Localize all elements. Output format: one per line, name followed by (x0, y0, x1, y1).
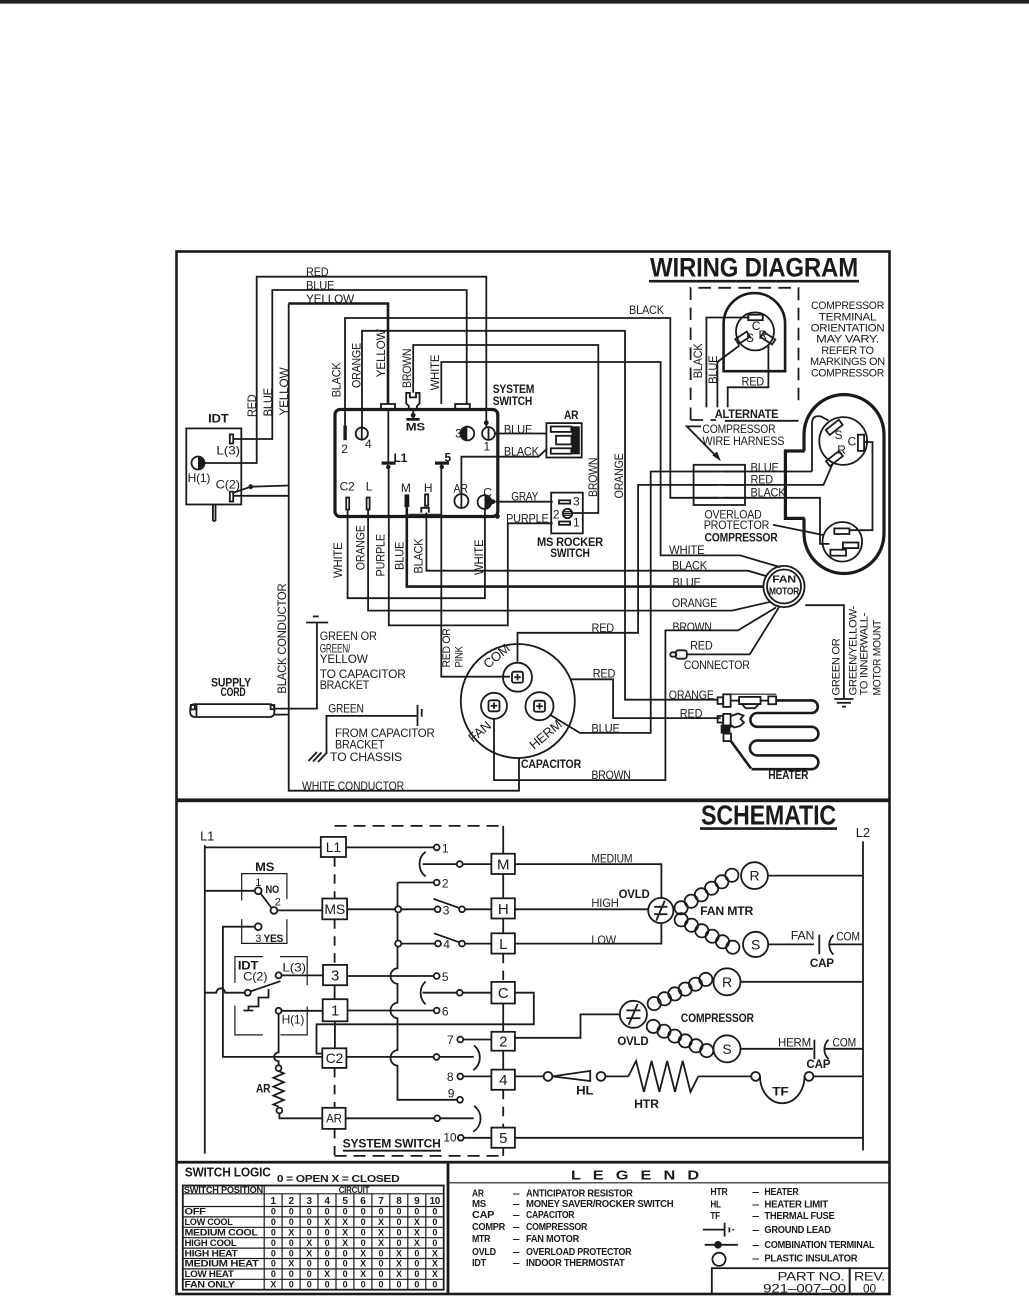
terminal 2 (bar) (343, 425, 346, 440)
compressor pocket notch (785, 451, 804, 518)
heater terminal dark blocks (721, 725, 731, 734)
svg-text:HTR: HTR (710, 1186, 728, 1198)
svg-text:0: 0 (414, 1269, 419, 1279)
svg-text:S: S (751, 936, 760, 952)
svg-text:COM: COM (833, 1035, 857, 1049)
junction dot at box corner (495, 514, 500, 519)
contact 8 (457, 1074, 463, 1080)
blade row3 (434, 899, 459, 908)
svg-text:5: 5 (499, 1130, 507, 1147)
svg-text:YELLOW: YELLOW (374, 329, 388, 378)
box 2 (switch column) (491, 1032, 515, 1051)
blade arc row1 (420, 852, 426, 877)
leader COMPRESSOR WIRE HARNESS arrow (687, 426, 719, 458)
wire BLUE harness to S (694, 416, 829, 471)
svg-text:S: S (835, 428, 843, 442)
svg-text:BRACKET: BRACKET (320, 678, 370, 692)
wire PURPLE rocker 1 to L1 terminal (389, 517, 553, 626)
svg-text:C: C (483, 486, 492, 500)
wire 1box to C2box (334, 1021, 336, 1048)
movable AR row (346, 1117, 435, 1119)
blade arc 9/10 (473, 1106, 480, 1132)
wire contact2 to bus (398, 882, 434, 884)
svg-text:MEDIUM: MEDIUM (591, 851, 632, 865)
chassis ground hatch (309, 752, 327, 762)
svg-text:10: 10 (429, 1196, 440, 1207)
svg-text:COMPRESSOR: COMPRESSOR (811, 367, 884, 379)
wire BLACK fan (426, 513, 766, 577)
anticipator resistor AR block (546, 423, 581, 457)
svg-text:RED: RED (690, 638, 713, 652)
svg-text:HTR: HTR (634, 1097, 659, 1111)
svg-text:0: 0 (396, 1280, 401, 1290)
svg-text:0: 0 (361, 1238, 366, 1248)
svg-text:0: 0 (289, 1207, 294, 1217)
svg-text:TERMINAL: TERMINAL (819, 311, 877, 323)
svg-text:0: 0 (414, 1280, 419, 1290)
svg-text:BLACK: BLACK (504, 445, 539, 459)
L1 bus (204, 845, 206, 1153)
terminal L1 plate (387, 410, 389, 463)
svg-text:FAN: FAN (791, 929, 814, 943)
wire contact7 to 2box (464, 1039, 492, 1041)
wire BLUE (IDT L3 to AR terminal lug) (233, 290, 467, 439)
compressor S terminal circle (714, 1035, 741, 1062)
svg-text:L1: L1 (394, 451, 408, 465)
contact 6 (434, 1008, 440, 1014)
leader overload protector (773, 525, 823, 535)
wire IDT common to L1 bus with hop (205, 988, 245, 992)
svg-text:IDT: IDT (208, 411, 229, 425)
junction dot above terminal 1 (484, 420, 489, 425)
rocker terminal 1 (559, 522, 570, 525)
svg-text:X: X (432, 1248, 438, 1258)
IDT contact H1 (276, 1008, 282, 1014)
wire RED connector to fan (687, 607, 779, 654)
svg-text:–: – (752, 1210, 760, 1222)
alternate compressor dome (724, 293, 786, 371)
svg-text:2: 2 (275, 897, 281, 909)
MS contact 3 YES (255, 923, 262, 930)
legend ground lead symbol (703, 1229, 725, 1231)
svg-text:–: – (752, 1186, 760, 1198)
svg-text:–: – (513, 1221, 521, 1233)
wire RED alt (728, 345, 769, 407)
contact 3 (435, 906, 441, 912)
fan S terminal circle (743, 932, 768, 957)
svg-text:1: 1 (255, 877, 261, 889)
resistor AR zigzag (273, 1071, 283, 1107)
svg-text:COMPRESSOR: COMPRESSOR (526, 1221, 588, 1233)
svg-text:HIGH HEAT: HIGH HEAT (185, 1248, 239, 1258)
junction dot at C (490, 499, 495, 504)
svg-text:H(1): H(1) (188, 471, 211, 485)
wire cord to black conductor riser (274, 714, 288, 716)
svg-text:1: 1 (271, 1196, 277, 1207)
svg-text:0: 0 (432, 1228, 437, 1238)
svg-text:0: 0 (289, 1248, 294, 1258)
svg-text:X: X (324, 1269, 330, 1279)
svg-text:0: 0 (414, 1259, 419, 1269)
wire HL to HTR (605, 1075, 628, 1077)
thermal fuse TF (751, 1072, 760, 1081)
system switch box (335, 410, 498, 517)
svg-text:PLASTIC INSULATOR: PLASTIC INSULATOR (764, 1253, 858, 1265)
svg-text:00: 00 (863, 1282, 876, 1296)
svg-text:2: 2 (288, 1196, 294, 1207)
svg-text:–: – (752, 1253, 760, 1265)
wire LOW row (515, 923, 662, 943)
wire fan S to FAN cap (768, 943, 814, 945)
svg-text:0: 0 (379, 1248, 384, 1258)
svg-text:L1: L1 (200, 828, 214, 843)
svg-text:CAP: CAP (472, 1209, 494, 1221)
svg-text:0: 0 (414, 1207, 419, 1217)
wire TF to L2 (813, 1075, 863, 1077)
terminal AR (circle) (454, 494, 468, 508)
svg-text:C2: C2 (340, 480, 355, 494)
svg-text:H: H (424, 481, 432, 495)
svg-text:LOW: LOW (591, 933, 616, 947)
red connector symbol (676, 650, 687, 658)
svg-text:MEDIUM COOL: MEDIUM COOL (185, 1228, 259, 1238)
terminal R (826, 451, 843, 466)
terminal H (bar with jog) (425, 494, 428, 505)
wire BLACK (terminal 2 to compressor harness) (345, 318, 694, 498)
wire 1box to contact6 (348, 1010, 434, 1012)
svg-text:BROWN: BROWN (400, 349, 414, 388)
svg-text:C(2): C(2) (243, 970, 267, 984)
capacitor terminal COM (503, 663, 532, 692)
svg-text:SWITCH POSITION: SWITCH POSITION (184, 1185, 263, 1196)
svg-text:X: X (342, 1228, 348, 1238)
svg-text:LOW HEAT: LOW HEAT (185, 1269, 235, 1279)
winding coil fan R (675, 901, 688, 914)
svg-text:MTR: MTR (472, 1233, 491, 1245)
movable C2 row (346, 1056, 433, 1058)
svg-text:SCHEMATIC: SCHEMATIC (701, 800, 836, 831)
svg-text:GREEN: GREEN (328, 701, 364, 715)
svg-text:0: 0 (307, 1269, 312, 1279)
svg-text:WHITE: WHITE (472, 539, 486, 575)
svg-text:0: 0 (271, 1228, 276, 1238)
terminal C (half-filled circle) (478, 495, 492, 509)
alt terminal C (748, 315, 763, 321)
svg-text:X: X (360, 1259, 366, 1269)
svg-text:YELLOW: YELLOW (320, 652, 369, 666)
svg-text:WHITE: WHITE (331, 542, 345, 578)
svg-text:X: X (378, 1238, 384, 1248)
svg-text:3: 3 (573, 494, 580, 508)
movable C row (423, 992, 457, 994)
svg-text:AR: AR (564, 408, 579, 422)
svg-text:GREEN OR: GREEN OR (831, 638, 843, 695)
svg-text:0: 0 (343, 1259, 348, 1269)
svg-text:L(3): L(3) (282, 961, 306, 975)
wire MS switch feed (205, 890, 255, 892)
svg-text:TO INNERWALL-: TO INNERWALL- (859, 612, 871, 695)
alt terminal S (735, 332, 750, 344)
svg-text:HL: HL (710, 1199, 721, 1211)
wire BLACK alt (706, 318, 749, 408)
wire GREEN fan motor ground (805, 605, 844, 699)
svg-text:MS: MS (324, 901, 345, 917)
svg-text:0: 0 (325, 1248, 330, 1258)
svg-text:R: R (837, 443, 846, 457)
thermal fuse assembly (731, 693, 777, 695)
svg-text:COMPRESSOR: COMPRESSOR (681, 1011, 754, 1025)
svg-text:X: X (288, 1228, 294, 1238)
svg-text:S: S (722, 1041, 731, 1057)
svg-text:PURPLE: PURPLE (374, 534, 388, 577)
svg-text:COMBINATION TERMINAL: COMBINATION TERMINAL (764, 1239, 875, 1251)
wire 2box to compressor OVLD (515, 1014, 621, 1037)
wire fan R to L2 (768, 875, 863, 877)
svg-text:RED: RED (593, 666, 616, 680)
svg-text:GREEN/YELLOW-: GREEN/YELLOW- (847, 605, 859, 695)
svg-text:HIGH COOL: HIGH COOL (185, 1238, 238, 1248)
terminal L (bar) (367, 498, 370, 510)
svg-text:L1: L1 (326, 839, 342, 855)
resistor HTR zigzag (628, 1061, 698, 1092)
wire BLACK CONDUCTOR riser (289, 304, 519, 791)
compressor shell outline (804, 395, 884, 574)
svg-text:ORANGE: ORANGE (672, 596, 717, 610)
svg-text:5: 5 (442, 970, 449, 984)
svg-text:0: 0 (432, 1217, 437, 1227)
blade row4 (434, 933, 459, 942)
svg-text:0: 0 (325, 1259, 330, 1269)
svg-text:–: – (513, 1233, 521, 1245)
wire YELLOW (IDT C2 riser to terminal lug) (289, 304, 389, 405)
contact 4 (435, 941, 441, 947)
svg-text:C(2): C(2) (216, 478, 240, 492)
svg-text:0: 0 (379, 1259, 384, 1269)
svg-text:0: 0 (432, 1238, 437, 1248)
contact 7 (457, 1037, 463, 1043)
svg-text:9: 9 (414, 1196, 420, 1207)
winding coil compressor R (648, 997, 661, 1010)
svg-text:OVLD: OVLD (619, 887, 650, 901)
svg-text:921–007–00: 921–007–00 (763, 1282, 847, 1296)
svg-text:CAP: CAP (806, 1057, 830, 1071)
svg-text:MOTOR MOUNT: MOTOR MOUNT (872, 619, 884, 695)
svg-text:BLUE: BLUE (591, 721, 619, 735)
svg-text:COM: COM (836, 929, 860, 943)
svg-text:RED: RED (680, 707, 703, 721)
svg-text:10: 10 (443, 1131, 456, 1145)
junction circle row4 (395, 941, 401, 947)
terminal S (826, 420, 843, 435)
terminal 4 (circle) (356, 428, 368, 440)
wire BROWN fan from capacitor FAN (494, 607, 776, 780)
svg-text:5: 5 (342, 1196, 348, 1207)
svg-text:0: 0 (325, 1238, 330, 1248)
svg-text:X: X (378, 1228, 384, 1238)
overload protector circle (823, 522, 863, 562)
svg-text:FAN: FAN (772, 575, 795, 586)
svg-text:3: 3 (331, 967, 339, 984)
svg-text:0: 0 (307, 1259, 312, 1269)
svg-text:OFF: OFF (185, 1207, 207, 1217)
svg-text:TF: TF (772, 1085, 788, 1099)
svg-text:CORD: CORD (221, 685, 246, 699)
svg-text:0: 0 (325, 1228, 330, 1238)
IDT bimetal step (244, 989, 269, 1011)
svg-text:X: X (396, 1248, 402, 1258)
wire compressor R to L2 (741, 981, 864, 983)
IDT sensing stub (213, 505, 216, 522)
svg-text:6: 6 (360, 1196, 366, 1207)
svg-text:X: X (396, 1259, 402, 1269)
svg-text:ORANGE: ORANGE (350, 343, 364, 388)
wire GREEN supply to capacitor-bracket ground (274, 623, 317, 708)
svg-text:0: 0 (396, 1217, 401, 1227)
IDT blade (251, 981, 281, 991)
svg-text:X: X (414, 1217, 420, 1227)
svg-text:0: 0 (289, 1217, 294, 1227)
divider wiring/schematic (176, 798, 890, 802)
svg-text:X: X (360, 1248, 366, 1258)
svg-text:X: X (432, 1269, 438, 1279)
MS plate (406, 418, 419, 421)
svg-text:8: 8 (447, 1070, 454, 1084)
svg-text:2: 2 (341, 442, 348, 456)
blade arc C row (421, 982, 426, 1005)
wire BROWN (MS terminal to rocker switch 2) (413, 345, 598, 513)
svg-text:SYSTEM SWITCH: SYSTEM SWITCH (343, 1137, 441, 1151)
wire WHITE (terminal 5 to fan motor) (441, 362, 780, 567)
svg-text:RED: RED (245, 394, 259, 417)
svg-text:HEATER: HEATER (768, 768, 808, 782)
terminal lug yellow on box top (381, 404, 395, 410)
svg-text:S: S (746, 331, 754, 345)
ground symbol motor mount (834, 698, 853, 700)
svg-text:L2: L2 (856, 825, 870, 840)
svg-text:0: 0 (361, 1217, 366, 1227)
box 5 (switch column) (491, 1128, 515, 1148)
svg-text:RED OR: RED OR (441, 628, 453, 667)
svg-text:H(1): H(1) (282, 1013, 305, 1027)
svg-text:C: C (848, 434, 857, 448)
svg-text:ORANGE: ORANGE (612, 453, 626, 498)
IDT contact L3 (276, 972, 282, 978)
svg-text:HEATER: HEATER (764, 1186, 799, 1198)
wire MEDIUM row (515, 864, 662, 898)
svg-text:0: 0 (271, 1238, 276, 1248)
wire white riser through terminal 5 (440, 465, 442, 517)
svg-text:BLACK: BLACK (691, 343, 705, 378)
svg-text:0 = OPEN X = CLOSED: 0 = OPEN X = CLOSED (277, 1174, 400, 1185)
wire HIGH row (515, 908, 648, 910)
wire contact8 to 4box (464, 1075, 492, 1077)
svg-text:L: L (499, 936, 507, 953)
svg-text:R: R (759, 328, 768, 342)
rocker terminal 3 (559, 500, 570, 503)
svg-text:0: 0 (307, 1207, 312, 1217)
compressor R terminal circle (714, 968, 741, 995)
svg-text:BLUE: BLUE (504, 422, 532, 436)
svg-text:MEDIUM HEAT: MEDIUM HEAT (185, 1259, 260, 1269)
svg-text:OVLD: OVLD (617, 1034, 648, 1048)
alternate dashed box (691, 288, 799, 420)
contact 10 (458, 1135, 464, 1141)
MS blade 1-2 (261, 893, 272, 908)
capacitor symbol HERM CAP (813, 1040, 815, 1060)
svg-text:CIRCUIT: CIRCUIT (339, 1185, 370, 1196)
svg-text:CAPACITOR: CAPACITOR (521, 757, 581, 771)
wire H1 down to AR with hop over C2 row (274, 1014, 278, 1065)
MS junction dot (411, 413, 416, 418)
svg-text:BROWN: BROWN (591, 768, 630, 782)
box AR (switch column) (322, 1108, 345, 1129)
wire ORANGE fan (from L) (368, 510, 771, 611)
svg-text:RED: RED (306, 265, 329, 279)
alternate terminal circle (736, 312, 774, 350)
wire YES to C2 row (223, 927, 322, 1057)
svg-text:BLACK: BLACK (412, 539, 426, 574)
svg-text:3: 3 (255, 933, 261, 945)
svg-text:BROWN: BROWN (673, 620, 712, 634)
svg-text:7: 7 (378, 1196, 384, 1207)
wire BLUE terminal1 to AR block (495, 433, 547, 435)
wire 3box to contact5 (347, 975, 434, 977)
contact 9 (457, 1097, 463, 1103)
box H (switch column) (491, 898, 515, 918)
svg-text:3: 3 (443, 903, 450, 917)
svg-text:CAP: CAP (810, 956, 834, 970)
svg-text:3: 3 (455, 426, 462, 440)
winding coil compressor S (647, 1020, 660, 1033)
terminal lug blue on box top (455, 404, 470, 410)
svg-text:4: 4 (443, 938, 450, 952)
wire HTR to TF (698, 1075, 751, 1077)
box L1 (switch column) (321, 837, 346, 857)
svg-text:FAN ONLY: FAN ONLY (185, 1280, 235, 1290)
svg-text:0: 0 (271, 1207, 276, 1217)
capacitor terminal FAN (481, 693, 507, 719)
IDT terminal H(1) (192, 457, 205, 470)
svg-text:ORIENTATION: ORIENTATION (811, 323, 885, 335)
svg-text:ALTERNATE: ALTERNATE (715, 407, 779, 421)
svg-text:BLUE: BLUE (306, 279, 334, 293)
box 3 (switch column) (323, 965, 347, 985)
terminal 3 (half-filled circle) (460, 427, 474, 441)
svg-text:0: 0 (396, 1238, 401, 1248)
fan motor circle (763, 566, 804, 607)
svg-text:X: X (306, 1248, 312, 1258)
red heater plug (718, 716, 724, 723)
svg-text:BLACK: BLACK (629, 303, 664, 317)
svg-text:–: – (752, 1199, 760, 1211)
svg-text:BLUE: BLUE (392, 542, 406, 570)
alt terminal R (761, 332, 776, 344)
svg-text:HERM: HERM (778, 1035, 811, 1049)
terminal M (filled bar) (405, 494, 410, 507)
capacitor symbol FAN CAP (818, 935, 820, 955)
svg-text:0: 0 (379, 1280, 384, 1290)
svg-text:X: X (342, 1238, 348, 1248)
svg-text:WIRING DIAGRAM: WIRING DIAGRAM (650, 253, 858, 283)
wire 4box to HL (515, 1075, 544, 1077)
svg-text:YELLOW: YELLOW (306, 292, 355, 306)
svg-text:X: X (414, 1228, 420, 1238)
dashed system switch outline (335, 825, 504, 827)
svg-text:BLUE: BLUE (706, 355, 720, 383)
wire BLUE alt (717, 346, 739, 408)
legend combination terminal symbol (705, 1244, 738, 1246)
svg-text:4: 4 (365, 437, 372, 451)
